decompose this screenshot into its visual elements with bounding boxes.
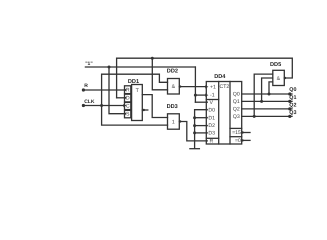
wire feedback line from DD5 output to DD1 D input <box>117 58 293 98</box>
pin R entry dot <box>124 89 126 91</box>
counter DD4 right column separator <box>229 82 231 145</box>
counter DD4 separator between =15 and =0 <box>230 136 242 138</box>
counter DD4 separator above =15 <box>230 127 242 129</box>
node R input terminal <box>82 88 85 91</box>
flip-flop DD1 C pin box <box>125 102 131 109</box>
svg-text:1: 1 <box>172 119 175 125</box>
svg-text:&: & <box>172 84 176 90</box>
and-gate DD5 box <box>273 70 285 85</box>
wire into DD1 D pin <box>117 97 125 99</box>
svg-text:=0: =0 <box>235 138 241 144</box>
wire output line Q3 <box>242 115 292 117</box>
svg-text:DD2: DD2 <box>167 69 178 75</box>
svg-text:Q3: Q3 <box>289 110 296 116</box>
svg-text:C: C <box>126 104 130 110</box>
wire "1" rail right drop toward DD4 <box>194 67 196 102</box>
wire Q3 tap to DD5 upper input <box>254 74 273 116</box>
and-gate DD2 box <box>168 79 180 95</box>
svg-text:V: V <box>210 100 214 106</box>
wire DD4 =15 output stub <box>242 132 250 134</box>
node DD2 output pin dot <box>179 85 181 87</box>
pin D1 entry dot <box>206 117 208 119</box>
counter DD4 separator above R <box>206 137 218 139</box>
svg-text:DD4: DD4 <box>214 74 226 80</box>
node Q1 terminal dot <box>288 100 291 103</box>
node DD1 inverse output pin dot <box>143 109 145 111</box>
node Q2 terminal dot <box>288 107 291 110</box>
node junction ground trunk / D1 <box>193 116 196 119</box>
wire Q0 tap to DD5 lower input <box>269 82 273 94</box>
wire DD2 output to DD4 +1 pin <box>179 86 206 88</box>
wire DD3 output to DD4 R pin <box>179 122 206 141</box>
wire DD1 Q output to DD3 upper input <box>142 95 167 118</box>
svg-text:S: S <box>126 112 130 118</box>
svg-text:CT2: CT2 <box>219 84 229 90</box>
svg-text:Q3: Q3 <box>233 114 240 120</box>
pin V entry dot <box>206 101 208 103</box>
wire CLK branch down to DD3 lower input <box>102 106 168 126</box>
wire DD1 inverse output stub <box>142 109 148 111</box>
pin D entry dot <box>124 97 126 99</box>
wire CLK branch up to DD2 upper input <box>102 74 168 105</box>
pin C dynamic input marker <box>123 104 126 107</box>
node =0 pin dot <box>241 139 243 141</box>
flip-flop DD1 main box <box>132 85 143 121</box>
svg-text:Q2: Q2 <box>233 107 240 113</box>
node Q0 terminal dot <box>288 92 291 95</box>
node junction CLK line / loop vertical <box>100 104 103 107</box>
svg-text:D3: D3 <box>208 131 215 137</box>
pin S entry dot <box>124 113 126 115</box>
pin D0 entry dot <box>206 109 208 111</box>
pin D2 entry dot <box>206 125 208 127</box>
counter DD4 separator below -1 <box>206 99 218 101</box>
node junction feedback line / DD2 branch <box>151 57 154 60</box>
wire "1" net into DD4 V pin <box>195 101 206 103</box>
wire "1" net into DD4 -1 pin <box>195 94 206 96</box>
svg-text:D1: D1 <box>208 115 215 121</box>
node DD5 output pin dot <box>284 77 286 79</box>
svg-text:R: R <box>84 83 88 89</box>
svg-text:CLK: CLK <box>84 99 95 105</box>
node junction "1" drop / -1 branch <box>194 94 197 97</box>
node junction Q1 / DD5 tap <box>260 100 263 103</box>
svg-text:Q2: Q2 <box>289 102 296 108</box>
wire Q1 tap to DD5 middle input <box>262 78 273 101</box>
svg-text:-1: -1 <box>210 93 215 99</box>
pin -1 dynamic input marker <box>205 94 208 97</box>
svg-text:Q1: Q1 <box>289 95 296 101</box>
wire output line Q1 <box>242 100 292 102</box>
node =15 pin dot <box>241 131 243 133</box>
flip-flop DD1 D pin box <box>125 94 131 102</box>
svg-text:Q0: Q0 <box>289 87 296 93</box>
node junction ground trunk / D3 <box>193 131 196 134</box>
svg-text:R: R <box>126 88 130 94</box>
or-gate DD3 box <box>168 114 180 129</box>
node junction ground trunk / D2 <box>193 124 196 127</box>
counter DD4 outer box <box>206 82 241 145</box>
wire R input to DD1 R pin <box>83 89 124 91</box>
svg-text:D2: D2 <box>208 123 215 129</box>
pin +1 dynamic input marker <box>205 85 208 88</box>
svg-text:DD3: DD3 <box>167 104 178 110</box>
wire CLK input to DD1 C pin <box>83 105 124 107</box>
wire ground branch to D2 pin <box>195 125 207 127</box>
wire "1" rail to DD1 S pin <box>109 67 125 114</box>
svg-text:Q0: Q0 <box>233 92 240 98</box>
svg-text:R: R <box>210 139 214 145</box>
svg-text:D: D <box>126 96 130 102</box>
wire ground trunk with D0 branch <box>195 110 207 149</box>
node junction Q0 / DD5 tap <box>268 93 271 96</box>
svg-text:DD5: DD5 <box>270 62 281 68</box>
counter DD4 left column separator <box>218 82 220 145</box>
flip-flop DD1 R pin box <box>125 86 131 94</box>
svg-text:=15: =15 <box>232 130 241 136</box>
svg-text:&: & <box>277 76 281 82</box>
wire feedback branch to DD2 lower input <box>152 58 167 90</box>
svg-text:+1: +1 <box>210 84 216 90</box>
svg-text:D0: D0 <box>208 107 215 113</box>
wire output line Q2 <box>242 108 292 110</box>
pin R entry dot <box>206 140 208 142</box>
wire ground branch to D1 pin <box>195 117 207 119</box>
node junction of "1" rail and S-pin drop <box>108 66 111 69</box>
pin D3 entry dot <box>206 132 208 134</box>
svg-text:Q1: Q1 <box>233 99 240 105</box>
node CLK input terminal <box>82 104 85 107</box>
wire DD4 =0 output stub <box>242 139 250 141</box>
svg-text:"1": "1" <box>85 61 93 67</box>
node DD3 output pin dot <box>179 120 181 122</box>
wire net "1" horizontal rail <box>85 66 195 68</box>
flip-flop DD1 S pin box <box>125 110 131 117</box>
node junction Q3 / DD5 tap <box>253 115 256 118</box>
wire ground branch to D3 pin <box>195 132 207 134</box>
node Q3 terminal dot <box>288 115 291 118</box>
svg-text:DD1: DD1 <box>128 79 139 85</box>
wire output line Q0 <box>242 93 292 95</box>
ground <box>190 148 200 150</box>
